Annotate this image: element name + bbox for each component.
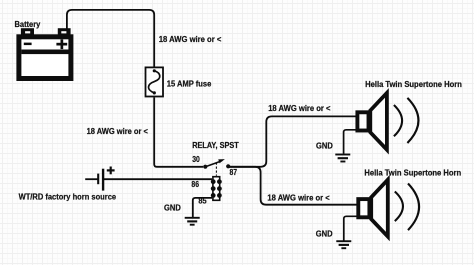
svg-text:18 AWG wire or <: 18 AWG wire or < [87, 127, 148, 136]
svg-text:18 AWG wire or <: 18 AWG wire or < [268, 104, 331, 113]
fuse F1 15 AMP [146, 67, 164, 96]
horn 2 (speaker) [344, 180, 419, 241]
svg-text:87: 87 [230, 168, 238, 177]
factory horn source cell [85, 167, 114, 191]
wire fuse to relay 30 [154, 97, 203, 166]
ground (horn 2) [336, 241, 351, 248]
wire battery+ to fuse [67, 10, 154, 67]
battery B1 [19, 28, 71, 78]
ground (relay) [185, 218, 200, 225]
wire relay 87 to horn 2 [228, 167, 357, 205]
svg-text:WT/RD factory horn source: WT/RD factory horn source [19, 193, 117, 202]
relay coil [211, 177, 222, 201]
svg-text:GND: GND [316, 229, 333, 238]
svg-text:15 AMP fuse: 15 AMP fuse [167, 80, 212, 89]
svg-text:Battery: Battery [15, 20, 41, 29]
svg-text:18 AWG wire or <: 18 AWG wire or < [267, 193, 330, 202]
svg-text:Hella Twin Supertone Horn: Hella Twin Supertone Horn [365, 80, 462, 89]
svg-text:18 AWG wire or <: 18 AWG wire or < [159, 35, 222, 44]
ground (horn 1) [335, 155, 350, 162]
relay switch contacts [203, 159, 230, 176]
svg-text:GND: GND [316, 141, 333, 150]
svg-text:30: 30 [192, 155, 200, 164]
horn 1 (speaker) [344, 93, 419, 154]
wire source to relay 86 [103, 178, 212, 180]
wire relay 85 to ground [193, 198, 212, 217]
svg-text:Hella Twin Supertone Horn: Hella Twin Supertone Horn [364, 169, 461, 178]
wire relay 87 to horn 1 [228, 116, 356, 166]
svg-text:86: 86 [191, 180, 199, 189]
svg-text:GND: GND [164, 204, 181, 213]
svg-text:RELAY, SPST: RELAY, SPST [192, 141, 239, 150]
